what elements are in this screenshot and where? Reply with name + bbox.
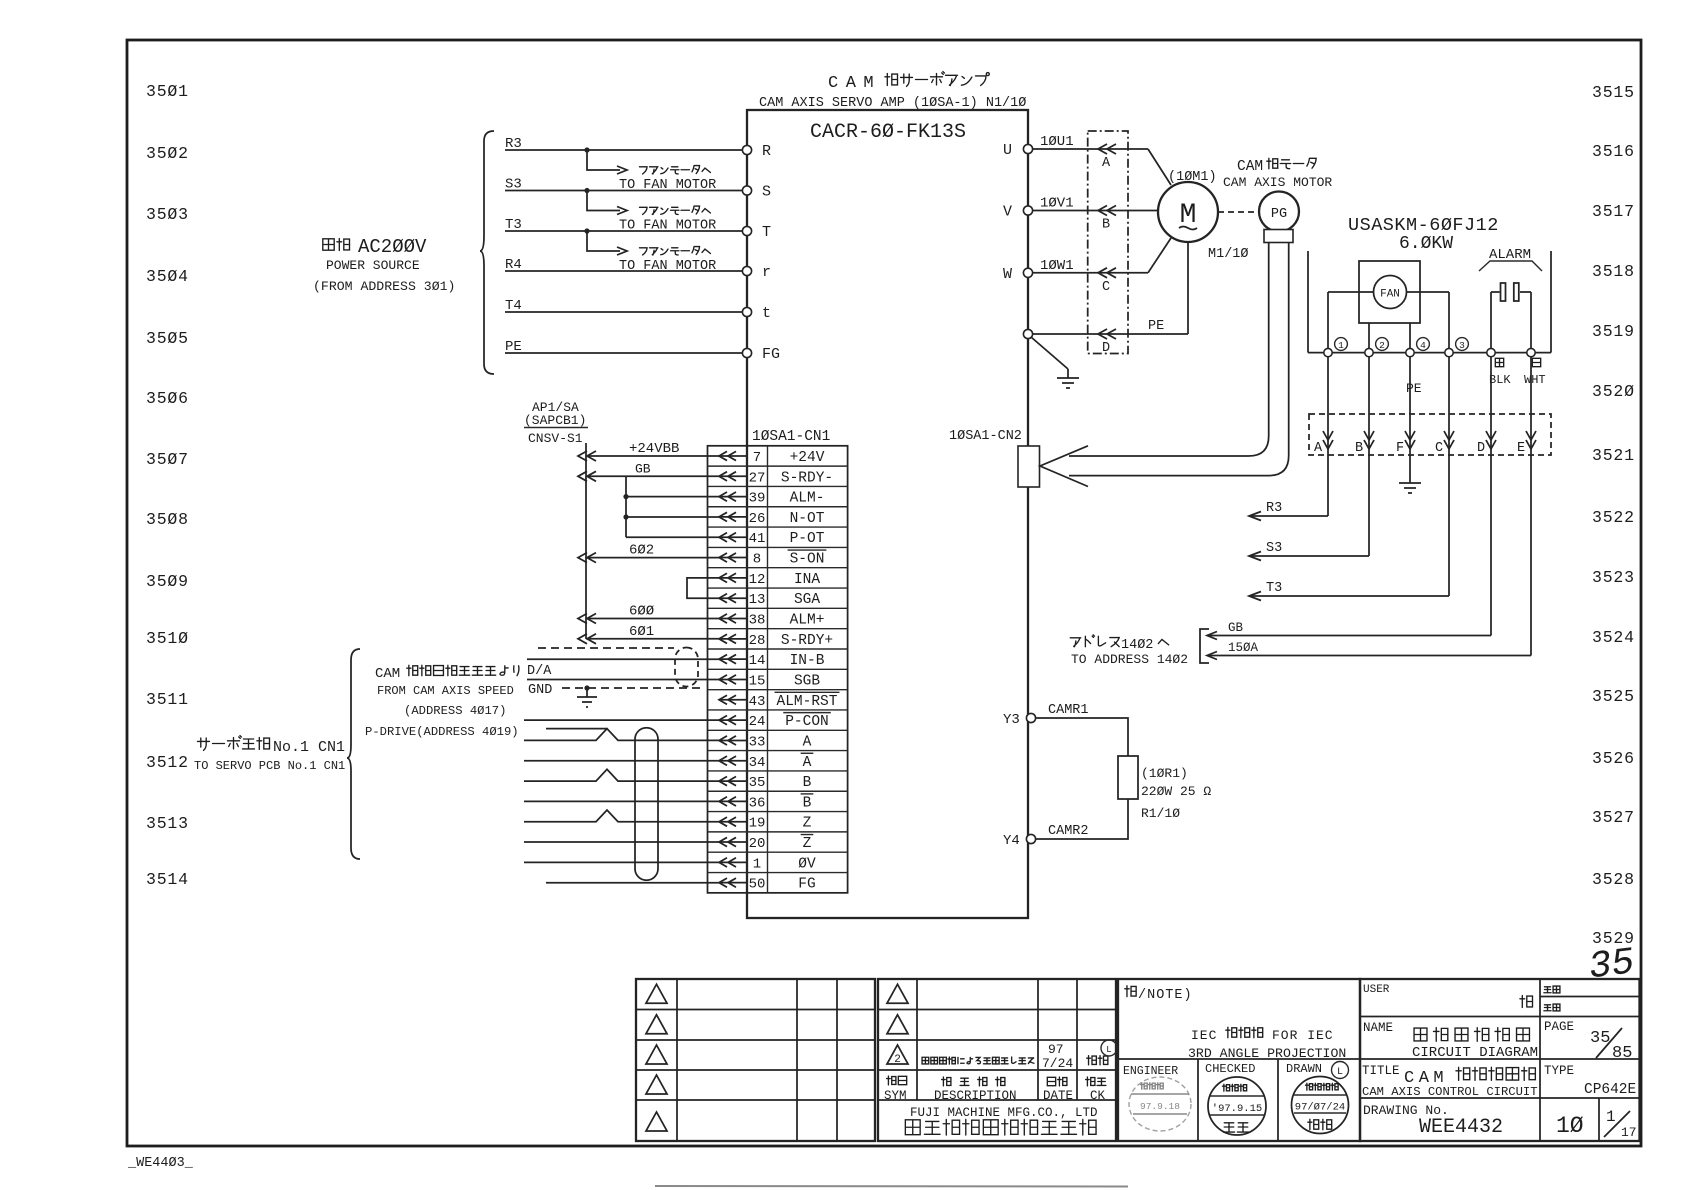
label: to address 1402	[1070, 635, 1188, 667]
resistor R1 (10R1) 220W 25ohm	[1118, 756, 1138, 799]
branch to fan motor	[584, 228, 716, 274]
svg-text:FAN: FAN	[1380, 289, 1400, 301]
title cell	[1362, 1064, 1538, 1099]
svg-text:28: 28	[749, 633, 766, 649]
svg-text:1: 1	[753, 856, 761, 872]
label: power source AC200V	[313, 236, 455, 294]
svg-text:35Ø1: 35Ø1	[146, 82, 189, 101]
svg-text:SYM: SYM	[884, 1089, 907, 1103]
svg-text:3: 3	[1459, 340, 1465, 351]
wire 6Ø1	[578, 624, 719, 644]
svg-text:1: 1	[1606, 1108, 1616, 1126]
svg-text:GND: GND	[528, 683, 552, 698]
svg-text:DRAWN: DRAWN	[1286, 1062, 1322, 1076]
svg-text:15: 15	[749, 673, 766, 689]
IEC note	[1188, 1027, 1346, 1061]
svg-text:8: 8	[753, 552, 761, 568]
svg-text:L: L	[1337, 1067, 1343, 1078]
svg-text:1: 1	[1338, 340, 1344, 351]
svg-text:AC2ØØV: AC2ØØV	[358, 236, 427, 258]
svg-text:14: 14	[749, 653, 766, 669]
terminal 2	[1365, 338, 1389, 357]
svg-text:1ØU1: 1ØU1	[1040, 134, 1074, 150]
svg-text:3518: 3518	[1592, 262, 1635, 281]
wire +24VBB	[578, 441, 719, 461]
svg-text:P-CON: P-CON	[785, 714, 829, 730]
pin 38 ALM+	[719, 613, 824, 629]
svg-text:A: A	[803, 755, 812, 771]
servo amplifier U1 box CACR-60-FK13S	[747, 110, 1028, 918]
terminal 1	[1324, 338, 1348, 357]
company name	[905, 1106, 1097, 1135]
terminal Y4	[1003, 833, 1036, 849]
svg-text:38: 38	[749, 613, 766, 629]
label PE at pin F	[1406, 381, 1422, 396]
wire fan box 2	[1368, 323, 1370, 348]
svg-text:SGB: SGB	[794, 673, 820, 689]
svg-text:T: T	[762, 224, 771, 241]
svg-text:N-OT: N-OT	[790, 511, 825, 527]
svg-text:FUJI MACHINE MFG.CO., LTD: FUJI MACHINE MFG.CO., LTD	[910, 1106, 1098, 1120]
svg-text:97: 97	[1048, 1042, 1064, 1057]
svg-text:(1ØR1): (1ØR1)	[1141, 766, 1188, 781]
svg-text:3513: 3513	[146, 814, 189, 833]
svg-text:CAM: CAM	[375, 666, 400, 682]
svg-text:3512: 3512	[146, 753, 189, 772]
handwritten page 35	[1586, 941, 1637, 989]
terminal 3	[1445, 338, 1469, 357]
svg-text:S-RDY-: S-RDY-	[781, 470, 833, 486]
svg-text:FOR IEC: FOR IEC	[1272, 1028, 1334, 1043]
svg-text:(FROM ADDRESS 3Ø1): (FROM ADDRESS 3Ø1)	[313, 279, 455, 294]
signatures ENGINEER CHECKED DRAWN	[1123, 1062, 1349, 1079]
pin 27 S-RDY-	[719, 470, 833, 486]
svg-text:S-RDY+: S-RDY+	[781, 633, 833, 649]
wire fan box 4	[1409, 323, 1411, 348]
svg-text:TO FAN MOTOR: TO FAN MOTOR	[619, 178, 716, 193]
wire S3 to amp	[505, 177, 743, 193]
revision triangles left	[646, 984, 667, 1131]
svg-text:r: r	[762, 264, 771, 281]
svg-text:DESCRIPTION: DESCRIPTION	[934, 1089, 1017, 1103]
svg-text:WHT: WHT	[1524, 373, 1546, 387]
svg-text:1ØW1: 1ØW1	[1040, 258, 1074, 274]
svg-text:FG: FG	[798, 877, 815, 893]
PG connector stub	[1264, 230, 1293, 243]
svg-text:CHECKED: CHECKED	[1205, 1062, 1255, 1076]
svg-text:3523: 3523	[1592, 568, 1635, 587]
svg-text:50: 50	[749, 877, 766, 893]
twisted pair bump	[524, 810, 720, 822]
wire B to S3 out	[1249, 449, 1369, 561]
svg-text:(ADDRESS 4Ø17): (ADDRESS 4Ø17)	[404, 704, 506, 718]
brace power source group	[480, 131, 494, 374]
svg-text:USASKM-6ØFJ12: USASKM-6ØFJ12	[1348, 215, 1499, 236]
svg-text:Z: Z	[803, 816, 812, 832]
svg-text:39: 39	[749, 491, 766, 507]
svg-text:3516: 3516	[1592, 142, 1635, 161]
svg-text:6.ØKW: 6.ØKW	[1399, 234, 1453, 254]
note text	[1125, 986, 1193, 1003]
pair wire	[524, 841, 720, 843]
svg-text:A: A	[1102, 156, 1111, 171]
svg-text:Y3: Y3	[1003, 712, 1020, 728]
svg-text:43: 43	[749, 694, 766, 710]
alarm thermal contact	[1491, 283, 1531, 301]
svg-text:B: B	[1355, 441, 1363, 456]
svg-text:35Ø2: 35Ø2	[146, 144, 189, 163]
svg-text:352Ø: 352Ø	[1592, 382, 1635, 401]
label USASKM-60FJ12 6.0KW	[1348, 215, 1499, 254]
label CACR-60-FK13S	[810, 121, 966, 144]
svg-text:A: A	[803, 734, 812, 750]
svg-text:3515: 3515	[1592, 83, 1635, 102]
wire 6ØØ	[578, 604, 719, 624]
svg-text:D/A: D/A	[527, 664, 552, 679]
svg-text:T4: T4	[505, 298, 522, 314]
svg-text:12: 12	[749, 572, 766, 588]
pin 36 B	[719, 794, 813, 812]
svg-text:M1/1Ø: M1/1Ø	[1208, 247, 1249, 262]
svg-text:TO SERVO PCB No.1 CN1: TO SERVO PCB No.1 CN1	[194, 759, 345, 773]
bus to CNSV-S1	[585, 443, 587, 639]
svg-text:DATE: DATE	[1043, 1089, 1073, 1103]
svg-text:35: 35	[749, 775, 766, 791]
motor plug dashed box A B F C D E	[1309, 414, 1551, 455]
svg-text:3511: 3511	[146, 690, 189, 709]
svg-text:R4: R4	[505, 257, 522, 273]
pin 12 INA	[719, 572, 820, 588]
svg-text:35Ø9: 35Ø9	[146, 572, 189, 591]
wire fan right	[1407, 292, 1450, 348]
svg-text:+24VBB: +24VBB	[629, 441, 679, 457]
wire CAMR1	[1035, 703, 1128, 756]
svg-text:CK: CK	[1090, 1089, 1106, 1103]
svg-text:T3: T3	[505, 217, 522, 233]
svg-text:TITLE: TITLE	[1362, 1064, 1400, 1078]
twisted pair bump	[524, 729, 720, 741]
wire P-DRIVE feed	[546, 728, 607, 730]
info block grid	[1360, 979, 1640, 1141]
svg-text:R1/1Ø: R1/1Ø	[1141, 806, 1180, 821]
node BLK	[1487, 348, 1512, 387]
wire CAMR2	[1035, 799, 1128, 839]
label: from cam axis speed	[365, 665, 519, 739]
wire D/A to IN-B	[527, 659, 720, 679]
svg-text:PE: PE	[505, 339, 522, 355]
wire P-CON	[524, 719, 720, 721]
connector table 10SA1-CN1	[708, 429, 848, 893]
resistor labels	[1141, 766, 1211, 821]
pin 43 ALM-RST	[719, 692, 839, 710]
wire to SGB	[527, 679, 720, 681]
svg-text:35Ø3: 35Ø3	[146, 205, 189, 224]
revision header row	[884, 1076, 1106, 1103]
svg-text:D: D	[1102, 341, 1110, 356]
svg-text:P-OT: P-OT	[790, 531, 825, 547]
twisted pair bump	[524, 769, 720, 781]
pin A arrow	[1098, 144, 1116, 171]
svg-text:6ØØ: 6ØØ	[629, 604, 654, 620]
svg-text:17: 17	[1621, 1125, 1637, 1140]
svg-text:24: 24	[749, 714, 766, 730]
svg-text:No.1 CN1: No.1 CN1	[273, 739, 345, 756]
svg-text:6Ø1: 6Ø1	[629, 624, 654, 640]
svg-text:CAMR1: CAMR1	[1048, 703, 1089, 718]
right line-number labels 3515-3529	[1592, 83, 1635, 948]
sheet cells	[1556, 1108, 1637, 1140]
pin 14 IN-B	[719, 653, 825, 669]
terminal bus	[1308, 352, 1551, 354]
wire W slant to motor	[1148, 238, 1171, 273]
encoder PG circle	[1259, 192, 1299, 232]
svg-text:IEC: IEC	[1191, 1028, 1217, 1043]
svg-text:R: R	[762, 143, 771, 160]
label: CAM axis servo amp JP title	[828, 72, 989, 93]
wire PE to amp	[505, 339, 743, 355]
svg-text:C: C	[1102, 280, 1110, 295]
svg-text:3525: 3525	[1592, 687, 1635, 706]
wire V to motor	[1148, 210, 1158, 212]
svg-text:1ØV1: 1ØV1	[1040, 196, 1074, 212]
ALARM label and bracket	[1479, 247, 1542, 271]
svg-text:35Ø8: 35Ø8	[146, 510, 189, 529]
svg-text:R3: R3	[505, 136, 522, 152]
svg-text:W: W	[1003, 266, 1012, 283]
pin 39 ALM-	[719, 491, 824, 507]
svg-text:85: 85	[1612, 1044, 1632, 1063]
svg-text:CP642E: CP642E	[1584, 1082, 1636, 1098]
ground at amp PE	[1031, 337, 1079, 388]
svg-text:NAME: NAME	[1363, 1021, 1393, 1035]
svg-text:35Ø5: 35Ø5	[146, 329, 189, 348]
terminal 4	[1406, 338, 1430, 357]
svg-text:B: B	[803, 795, 812, 811]
svg-text:97/Ø7/24: 97/Ø7/24	[1295, 1102, 1345, 1114]
label: CAM axis motor jp	[1223, 158, 1332, 190]
svg-text:15ØA: 15ØA	[1228, 641, 1259, 655]
svg-text:TYPE: TYPE	[1544, 1064, 1574, 1078]
svg-text:41: 41	[749, 531, 766, 547]
code WE4403	[127, 1156, 194, 1171]
svg-text:35Ø6: 35Ø6	[146, 389, 189, 408]
svg-text:_WE44Ø3_: _WE44Ø3_	[127, 1156, 194, 1171]
svg-text:13: 13	[749, 592, 766, 608]
svg-text:CIRCUIT DIAGRAM: CIRCUIT DIAGRAM	[1412, 1045, 1538, 1061]
cable shield capsule	[635, 728, 658, 881]
svg-text:E: E	[1517, 441, 1525, 456]
pin 35 B	[719, 775, 812, 791]
plug pin D	[1477, 357, 1496, 456]
svg-text:1ØSA1-CN2: 1ØSA1-CN2	[949, 429, 1022, 444]
svg-text:PAGE: PAGE	[1544, 1020, 1574, 1034]
connector CNSV-S1 labels	[524, 400, 588, 446]
pin 41 P-OT	[719, 531, 825, 547]
svg-text:CAM: CAM	[828, 74, 881, 93]
svg-text:PE: PE	[1148, 319, 1164, 334]
svg-text:INA: INA	[794, 572, 820, 588]
svg-text:POWER SOURCE: POWER SOURCE	[326, 258, 420, 273]
plug pin B	[1355, 357, 1374, 456]
wire FG shield	[546, 882, 720, 884]
terminal Y3	[1003, 712, 1036, 728]
svg-text:B: B	[803, 775, 812, 791]
svg-text:PG: PG	[1271, 207, 1287, 222]
label M1/10	[1208, 247, 1249, 262]
svg-text:T3: T3	[1266, 581, 1282, 596]
svg-text:SGA: SGA	[794, 592, 820, 608]
engineer stamp	[1129, 1077, 1191, 1131]
label: to servo pcb no.1 cn1	[194, 736, 345, 773]
svg-text:U: U	[1003, 142, 1012, 159]
svg-text:20: 20	[749, 836, 766, 852]
pin 26 N-OT	[719, 511, 825, 527]
pin 1 ØV	[719, 856, 816, 872]
wire PE from motor bottom	[1187, 242, 1189, 334]
node WHT	[1524, 348, 1546, 387]
svg-text:ENGINEER: ENGINEER	[1123, 1065, 1178, 1078]
type cell	[1544, 1064, 1636, 1098]
svg-text:FROM CAM AXIS SPEED: FROM CAM AXIS SPEED	[377, 684, 514, 698]
pair wire	[524, 861, 720, 863]
label: CAM AXIS SERVO AMP (10SA-1) N1/10	[759, 96, 1026, 111]
svg-text:CAM AXIS SERVO AMP (1ØSA-1) N1: CAM AXIS SERVO AMP (1ØSA-1) N1/1Ø	[759, 96, 1026, 111]
svg-text:S-ON: S-ON	[790, 552, 825, 568]
connector 10SA1-CN2	[949, 429, 1040, 487]
plug pin F	[1396, 357, 1415, 456]
svg-text:CAM AXIS MOTOR: CAM AXIS MOTOR	[1223, 175, 1332, 190]
PG cable pair down to CN2	[1069, 243, 1289, 476]
svg-text:GB: GB	[635, 461, 651, 476]
svg-text:2: 2	[894, 1054, 901, 1066]
svg-text:3522: 3522	[1592, 508, 1635, 527]
svg-text:FG: FG	[762, 346, 780, 363]
wire F to ground	[1399, 449, 1421, 493]
drawn stamp	[1292, 1077, 1349, 1134]
svg-text:/NOTE): /NOTE)	[1138, 988, 1193, 1003]
wire 6Ø2	[578, 543, 719, 563]
svg-text:S3: S3	[1266, 541, 1282, 556]
svg-text:14Ø2: 14Ø2	[1121, 638, 1153, 653]
svg-text:27: 27	[749, 470, 766, 486]
svg-text:2: 2	[1379, 340, 1385, 351]
branch to fan motor	[584, 188, 716, 234]
svg-text:ØV: ØV	[798, 856, 816, 872]
motor M1 circle (10M1)	[1158, 170, 1218, 242]
svg-text:3524: 3524	[1592, 628, 1635, 647]
svg-text:3RD ANGLE PROJECTION: 3RD ANGLE PROJECTION	[1188, 1046, 1346, 1061]
title block	[636, 979, 1116, 1141]
drawing no cell	[1363, 1103, 1503, 1139]
pair wire	[524, 800, 720, 802]
svg-text:P-DRIVE(ADDRESS 4Ø19): P-DRIVE(ADDRESS 4Ø19)	[365, 725, 519, 739]
plug pin A	[1314, 357, 1333, 456]
svg-text:'97.9.15: '97.9.15	[1212, 1103, 1262, 1115]
pin D arrow	[1098, 329, 1116, 356]
bottom scan line	[655, 1185, 1128, 1188]
alarm wires to bus	[1491, 292, 1531, 348]
svg-text:A: A	[1314, 441, 1323, 456]
svg-text:S: S	[762, 184, 771, 201]
revision row3 text	[922, 1040, 1117, 1071]
svg-text:WEE4432: WEE4432	[1419, 1116, 1503, 1139]
branch to fan motor	[584, 147, 716, 193]
svg-text:Y4: Y4	[1003, 833, 1020, 849]
svg-text:S3: S3	[505, 177, 522, 193]
svg-text:3519: 3519	[1592, 322, 1635, 341]
pin 24 P-CON	[719, 713, 831, 731]
checked stamp	[1208, 1077, 1266, 1135]
terminal V and wire 1ØV1	[1003, 196, 1148, 221]
pin C arrow	[1098, 268, 1116, 295]
wire R4 to amp	[505, 257, 743, 273]
svg-text:19: 19	[749, 816, 766, 832]
svg-text:L: L	[1106, 1045, 1111, 1055]
svg-text:IN-B: IN-B	[790, 653, 825, 669]
svg-text:TO ADDRESS 14Ø2: TO ADDRESS 14Ø2	[1071, 652, 1188, 667]
wire T4 to amp	[505, 298, 743, 314]
pin 15 SGB	[719, 673, 820, 689]
svg-text:22ØW 25 Ω: 22ØW 25 Ω	[1141, 784, 1211, 799]
CN2 cable arrow	[1040, 446, 1088, 487]
svg-text:V: V	[1003, 204, 1012, 221]
svg-text:D: D	[1477, 441, 1485, 456]
svg-text:(SAPCB1): (SAPCB1)	[524, 413, 586, 428]
svg-text:(1ØM1): (1ØM1)	[1168, 170, 1217, 185]
FAN motor circle	[1374, 276, 1407, 309]
svg-text:ALM-RST: ALM-RST	[777, 694, 838, 710]
pin 34 A	[719, 753, 813, 771]
svg-text:3527: 3527	[1592, 808, 1635, 827]
svg-text:3521: 3521	[1592, 446, 1635, 465]
svg-text:ALM-: ALM-	[790, 491, 825, 507]
svg-text:CNSV-S1: CNSV-S1	[528, 431, 583, 446]
pin 33 A	[719, 734, 812, 750]
svg-text:GB: GB	[1228, 621, 1244, 635]
svg-text:3517: 3517	[1592, 202, 1635, 221]
wire A to R3 out	[1249, 449, 1328, 521]
svg-text:TO FAN MOTOR: TO FAN MOTOR	[619, 219, 716, 234]
page cell	[1544, 1020, 1632, 1063]
svg-text:3514: 3514	[146, 870, 189, 889]
svg-text:35: 35	[1586, 941, 1637, 989]
svg-text:35Ø4: 35Ø4	[146, 267, 189, 286]
svg-text:C: C	[1435, 441, 1443, 456]
svg-text:97.9.18: 97.9.18	[1140, 1101, 1180, 1112]
PE terminal of amp	[1023, 319, 1188, 339]
brace servo pcb	[347, 649, 360, 859]
user cell	[1363, 984, 1560, 1011]
plug pin E	[1517, 357, 1536, 456]
svg-text:26: 26	[749, 511, 766, 527]
svg-text:BLK: BLK	[1489, 373, 1511, 387]
svg-text:R3: R3	[1266, 501, 1282, 516]
svg-text:6Ø2: 6Ø2	[629, 543, 654, 559]
svg-text:CAM: CAM	[1237, 159, 1263, 175]
svg-text:1Ø: 1Ø	[1556, 1113, 1584, 1139]
pin 8 S-ON	[719, 550, 826, 568]
terminal W and wire 1ØW1	[1003, 258, 1148, 283]
junction GB to ALM-/N-OT/P-OT	[623, 476, 719, 537]
pin 13 SGA	[719, 592, 820, 608]
svg-text:CAM AXIS CONTROL CIRCUIT: CAM AXIS CONTROL CIRCUIT	[1362, 1085, 1538, 1099]
svg-text:7: 7	[753, 450, 761, 466]
svg-text:ALM+: ALM+	[790, 613, 825, 629]
wire D to GB out	[1207, 449, 1491, 640]
pin B arrow	[1098, 206, 1116, 233]
pin 7 +24V	[719, 450, 825, 466]
svg-text:34: 34	[749, 755, 766, 771]
